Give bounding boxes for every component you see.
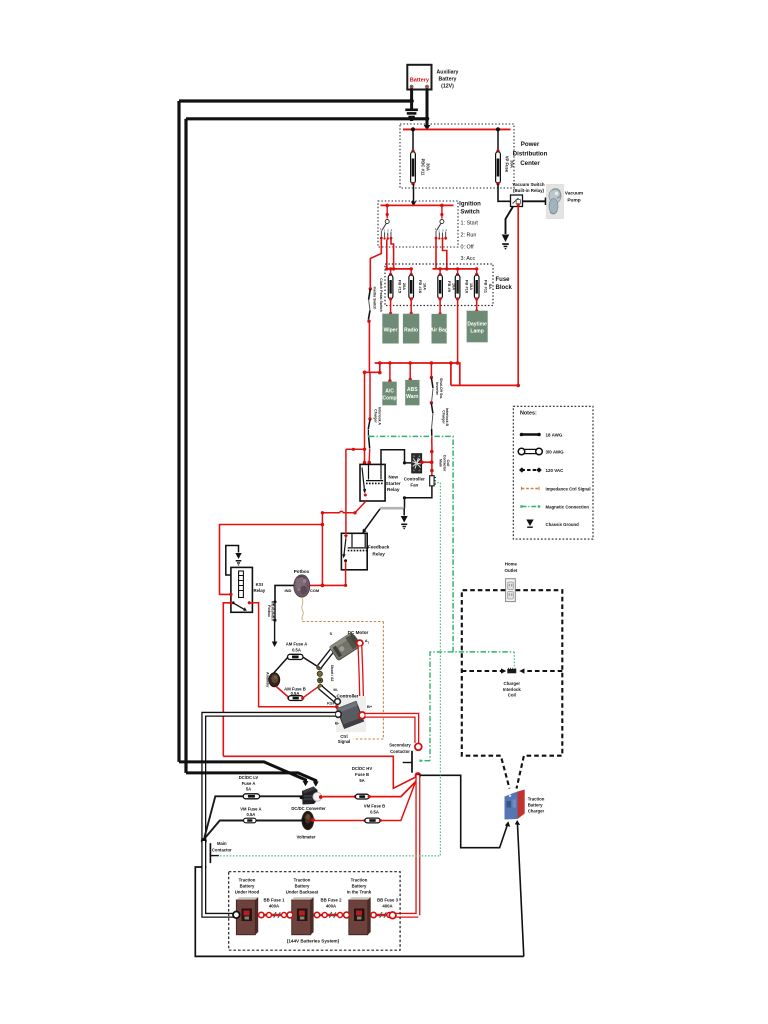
wire ABS drop <box>409 363 412 381</box>
wire KSI net vertical <box>321 513 323 586</box>
svg-text:15A: 15A <box>469 283 474 290</box>
svg-text:30A: 30A <box>426 163 431 171</box>
svg-text:DC/DC HV: DC/DC HV <box>352 766 372 771</box>
label ctrl signal <box>338 734 351 744</box>
fuse VM B <box>363 818 382 823</box>
svg-text:400A: 400A <box>326 903 336 908</box>
wire battery positive down to PDC and left run <box>186 88 430 130</box>
label inverter shutoff switch <box>435 378 443 399</box>
svg-text:Traction: Traction <box>294 878 311 883</box>
wire ignition start to fuse bus1 <box>391 239 394 269</box>
fuse PDC #11 30A <box>411 129 431 185</box>
arrow charger wire right <box>515 820 520 825</box>
svg-text:Controller: Controller <box>337 694 359 699</box>
cable junction to battery string (3/0 red) <box>396 775 419 915</box>
terminal stack <box>317 665 323 690</box>
home outlet image <box>506 579 516 602</box>
svg-text:DC/DC Converter: DC/DC Converter <box>291 806 326 811</box>
svg-text:2: Run: 2: Run <box>461 233 477 239</box>
secondary contactor ring <box>415 743 422 750</box>
svg-text:Under Hood: Under Hood <box>235 890 260 895</box>
fuse HV B <box>354 794 371 799</box>
controller B+ ring <box>359 712 366 719</box>
wire PDC fuse1 to ignition switch <box>411 184 416 207</box>
wire KSI relay to controller KSI <box>249 603 336 707</box>
svg-text:DC Motor: DC Motor <box>348 630 369 635</box>
svg-text:Starter: Starter <box>386 481 401 486</box>
svg-text:Charger: Charger <box>528 809 545 814</box>
feedback relay coil <box>348 534 367 551</box>
legend 3/0 AWG <box>518 448 564 455</box>
ignition rotary switch right <box>435 205 448 239</box>
svg-text:(Built-in Relay): (Built-in Relay) <box>513 188 545 193</box>
svg-text:B+: B+ <box>367 704 373 709</box>
legend 18 AWG <box>520 433 563 438</box>
fuse AM B <box>287 696 304 701</box>
svg-text:ABS: ABS <box>407 387 418 393</box>
svg-text:Interlock: Interlock <box>503 687 522 692</box>
wire VP fuse to vacuum switch <box>498 184 511 202</box>
load box Daytime Lamp <box>467 311 488 343</box>
vacuum pump image <box>547 185 564 219</box>
wire voltmeter line black <box>205 821 302 838</box>
svg-text:DC/DC LV: DC/DC LV <box>239 775 259 780</box>
load box Air Bag <box>430 314 448 344</box>
legend magnetic connection <box>520 505 589 510</box>
svg-text:M-: M- <box>333 687 338 692</box>
wire microswitch arrow down <box>272 621 278 648</box>
wire fan to main contactor coil chain <box>420 460 433 464</box>
label KSI relay <box>253 582 265 593</box>
chassis ground (vacuum switch) <box>502 235 510 250</box>
traction battery 1 image <box>236 897 258 935</box>
cable stack to controller M- (3/0 tube) <box>320 688 337 702</box>
wire potbox COM to KSI net <box>310 584 347 588</box>
svg-text:Battery: Battery <box>295 884 310 889</box>
svg-text:A/C: A/C <box>385 388 394 394</box>
svg-text:Coil: Coil <box>446 460 450 467</box>
ignition switch box <box>378 201 458 247</box>
wire battery negative to ground and left run <box>179 88 414 108</box>
svg-text:KSI: KSI <box>256 582 263 587</box>
svg-text:Pump: Pump <box>567 198 580 204</box>
new starter relay box <box>360 464 385 501</box>
label new starter relay <box>386 475 401 493</box>
fuse FB10 <box>455 267 474 300</box>
svg-text:Battery: Battery <box>352 884 367 889</box>
starter relay switch <box>362 468 367 497</box>
switch charger interlock A <box>367 372 371 464</box>
svg-text:BB Fuse 1: BB Fuse 1 <box>263 897 285 902</box>
svg-text:Signal: Signal <box>338 739 351 744</box>
wire AC red bus <box>375 363 519 385</box>
label main contactor coil <box>439 455 451 472</box>
interconnect battery1-2 with BB fuse 1 <box>258 912 293 918</box>
label BB fuse 3 <box>377 897 399 908</box>
svg-text:Chassis Ground: Chassis Ground <box>546 522 580 527</box>
svg-text:COM: COM <box>310 588 320 593</box>
svg-text:IND: IND <box>285 588 292 593</box>
svg-text:Clutch Pedal Switch: Clutch Pedal Switch <box>379 278 383 311</box>
wire magnetic branch to secondary contactor (green) <box>420 652 453 761</box>
svg-text:Charger: Charger <box>504 681 521 686</box>
svg-text:Auxiliary: Auxiliary <box>437 70 459 76</box>
wire positive feed to DCDC converter <box>186 773 319 787</box>
svg-text:Charger: Charger <box>441 410 445 424</box>
svg-text:120 VAC: 120 VAC <box>546 468 565 473</box>
svg-text:Vacuum Switch: Vacuum Switch <box>512 182 545 187</box>
legend chassis ground <box>526 520 579 528</box>
fuse FB15 <box>388 267 407 300</box>
svg-text:30A: 30A <box>510 160 515 168</box>
wire fuse B to terminal stack red <box>303 687 318 698</box>
svg-text:5A: 5A <box>488 284 493 289</box>
label Auxiliary Battery (12V) <box>437 70 459 90</box>
svg-text:VP Fuse: VP Fuse <box>505 156 510 173</box>
label charger interlock A <box>374 407 382 425</box>
svg-text:PDC #11: PDC #11 <box>421 159 426 176</box>
main contactor coil element <box>430 476 436 486</box>
wire charger negative down <box>517 823 523 957</box>
motor A1 ring terminal <box>357 638 370 647</box>
svg-text:Battery: Battery <box>240 884 255 889</box>
label vacuum pump <box>565 191 583 204</box>
wire long left vertical positive <box>184 119 187 773</box>
charger interlock coil element <box>507 668 516 674</box>
svg-text:5A: 5A <box>246 787 251 792</box>
cable stack to motor (3/0 tube) <box>320 646 337 667</box>
svg-text:Potbox: Potbox <box>267 605 271 617</box>
wire KSI relay ground loop <box>226 546 239 576</box>
svg-text:Battery: Battery <box>439 77 457 83</box>
svg-text:Main: Main <box>439 459 443 467</box>
label potbox microswitch <box>267 601 275 621</box>
wire magnetic coil drop dotted (green) <box>513 652 515 667</box>
potbox microswitch element <box>273 600 276 621</box>
wire vacuum switch to chassis ground <box>506 207 514 235</box>
svg-text:Traction: Traction <box>528 797 545 802</box>
ignition rotary switch left <box>380 205 393 239</box>
wire secondary contactor coil loop <box>223 756 416 788</box>
wire VM fuse B line red <box>315 779 417 821</box>
wire fuse A to terminal stack <box>303 657 318 667</box>
svg-text:Coil: Coil <box>508 693 516 698</box>
svg-text:Contactor: Contactor <box>390 749 410 754</box>
svg-text:Center: Center <box>520 160 540 167</box>
svg-text:(144V Batteries System): (144V Batteries System) <box>287 939 340 944</box>
node AC bus dots <box>388 361 520 387</box>
wire fuse bus1 <box>385 267 413 270</box>
svg-text:Vacuum: Vacuum <box>565 191 583 197</box>
wire potbox IND to microswitch <box>275 585 294 601</box>
interconnect battery2-3 with BB fuse 2 <box>314 912 350 918</box>
svg-text:Inverter: Inverter <box>435 382 439 395</box>
svg-text:Feedback: Feedback <box>368 545 390 550</box>
load box Radio <box>403 314 419 344</box>
svg-text:Daytime: Daytime <box>467 322 487 328</box>
label home outlet <box>505 562 518 573</box>
node jog dots2 <box>352 448 367 465</box>
chassis ground (fan circuit) <box>401 508 408 529</box>
svg-text:Distribution: Distribution <box>513 151 548 158</box>
fuse VM A <box>243 794 259 799</box>
svg-text:Interlock B: Interlock B <box>445 408 449 427</box>
wire coil bottom to ground run <box>403 486 432 508</box>
wire clutch chain to bus jog <box>365 322 380 372</box>
svg-text:Home: Home <box>505 562 518 567</box>
svg-text:0.5A: 0.5A <box>292 647 301 652</box>
wire ammeter to fuse A <box>273 657 288 673</box>
label AM fuse B <box>284 686 306 696</box>
wire bottom negative run <box>195 867 524 956</box>
label BB fuse 1 <box>263 897 285 908</box>
svg-text:FB #16: FB #16 <box>418 280 423 294</box>
feedback relay switch <box>342 539 347 563</box>
svg-text:Relay: Relay <box>387 487 400 492</box>
controller M- ring <box>335 699 341 705</box>
svg-text:0.5A: 0.5A <box>370 809 379 814</box>
wire impedance ctrl signal (potbox wiper) <box>302 597 384 739</box>
svg-text:18 AWG: 18 AWG <box>546 433 563 438</box>
node main negative junction <box>201 838 207 844</box>
svg-text:Notes:: Notes: <box>520 411 537 417</box>
wire vacuum switch to pump <box>523 198 546 206</box>
cable controller B+ to secondary contactor (3/0 red) <box>365 715 416 743</box>
label traction battery 3 <box>347 878 372 895</box>
interconnect battery3 to main cable with BB fuse 3 <box>371 912 396 919</box>
wire AC comp drop <box>388 363 391 383</box>
wire feedback switch lower red <box>345 562 347 586</box>
label charger interlock B <box>441 408 449 427</box>
svg-text:Main: Main <box>217 841 227 846</box>
label vacuum switch <box>512 182 545 193</box>
svg-text:10A: 10A <box>423 283 428 290</box>
svg-text:Comp: Comp <box>382 395 396 401</box>
svg-text:Controller: Controller <box>404 477 425 482</box>
wire red into feedback relay <box>344 532 348 539</box>
svg-text:AM Fuse A: AM Fuse A <box>286 642 307 647</box>
potbox image <box>294 575 310 597</box>
fuse FB9 <box>438 267 457 300</box>
voltmeter image <box>301 811 315 829</box>
svg-text:0.5A: 0.5A <box>246 812 255 817</box>
label secondary contactor <box>389 743 411 754</box>
svg-text:FB #9: FB #9 <box>447 281 452 293</box>
label feedback relay <box>368 545 390 557</box>
wire 120VAC dashed box <box>462 590 563 788</box>
wire starter relay KSI feed diagonal <box>321 501 366 515</box>
svg-text:Shut-Off Sw.: Shut-Off Sw. <box>439 378 443 399</box>
svg-text:3/0 AWG: 3/0 AWG <box>546 450 565 455</box>
dc motor image <box>329 632 361 661</box>
svg-text:Contactor: Contactor <box>442 455 446 472</box>
svg-text:Fuse A: Fuse A <box>242 781 256 786</box>
wire fuse bus2 <box>433 267 478 270</box>
starter relay coil <box>366 465 383 483</box>
svg-text:0: Off: 0: Off <box>461 245 475 251</box>
svg-text:VM Fuse B: VM Fuse B <box>364 803 385 808</box>
load box AC Comp <box>382 382 396 406</box>
wire VM fuse A line <box>204 796 301 838</box>
svg-text:1: Start: 1: Start <box>461 221 479 227</box>
wire vacuum switch red down to AC rail <box>517 203 520 385</box>
wire relay to feedback relay diagonal <box>362 509 380 533</box>
svg-text:In the Trunk: In the Trunk <box>347 890 372 895</box>
fuse AM A <box>288 654 304 659</box>
node main positive junction <box>415 772 421 778</box>
wire 120VAC interlock row <box>462 668 563 673</box>
svg-text:VM Fuse A: VM Fuse A <box>240 806 261 811</box>
svg-text:Voltmeter: Voltmeter <box>296 834 315 839</box>
node bus jog dots <box>363 361 382 374</box>
svg-text:Relay: Relay <box>372 551 385 556</box>
node green squares <box>368 435 422 762</box>
wire ignition acc to clutch chain <box>370 239 381 288</box>
svg-text:B-: B- <box>335 721 340 726</box>
wire junction to charger positive <box>418 775 508 847</box>
arrow charger wire left <box>505 821 510 827</box>
KSI relay box <box>231 567 253 612</box>
wire clutch chain upper <box>367 287 372 323</box>
svg-text:Relay: Relay <box>253 588 265 593</box>
label main contactor <box>212 841 232 852</box>
svg-text:Traction: Traction <box>351 878 368 883</box>
wire red jog to feedback relay feed <box>346 372 365 532</box>
label fuse block <box>496 277 513 291</box>
wire PDC red rail <box>403 127 511 131</box>
svg-text:Secondary: Secondary <box>389 743 411 748</box>
wire ignition to fuse bus2 b <box>443 240 447 269</box>
wire fuse1 to wiper <box>389 299 392 315</box>
svg-text:FB #15: FB #15 <box>397 280 402 294</box>
chassis ground (KSI relay) <box>235 553 241 566</box>
chassis ground (aux battery) <box>405 109 418 122</box>
svg-text:Contactor: Contactor <box>212 847 232 852</box>
cable controller B- to main junction (3/0 black) <box>204 714 335 841</box>
fuse FB11 <box>474 267 493 300</box>
wire ignition run to fuse bus1 <box>386 240 388 269</box>
KSI relay coil <box>239 571 244 598</box>
load box Wiper <box>382 314 398 344</box>
wire magnetic connection interlocks to coil (green) <box>369 436 514 652</box>
svg-text:Impedance Ctrl Signal: Impedance Ctrl Signal <box>546 487 591 492</box>
svg-text:(12V): (12V) <box>441 84 454 90</box>
svg-text:Warn: Warn <box>406 394 418 400</box>
wire starter relay to controller fan <box>381 450 411 465</box>
legend 120 VAC <box>519 467 564 473</box>
traction battery 2 image <box>292 897 314 935</box>
label traction battery 1 <box>235 878 260 895</box>
controller B- ring <box>335 711 341 717</box>
fuse small on voltmeter line <box>244 818 257 823</box>
controller KSI node <box>335 705 339 709</box>
svg-text:Charger: Charger <box>374 409 378 423</box>
svg-text:Inertia Switch: Inertia Switch <box>373 287 377 310</box>
label DCDC HV fuse B <box>352 766 372 783</box>
svg-text:Microswitch: Microswitch <box>271 601 275 621</box>
svg-text:400A: 400A <box>269 903 279 908</box>
svg-text:BB Fuse 2: BB Fuse 2 <box>320 897 342 902</box>
main contactor symbol <box>210 843 219 863</box>
svg-text:Shunt / A2: Shunt / A2 <box>330 665 334 682</box>
vacuum switch box <box>511 195 523 207</box>
svg-text:Potbox: Potbox <box>294 569 310 574</box>
secondary contactor symbol <box>403 751 412 773</box>
wire KSI relay coil feed <box>220 523 325 595</box>
label Power Distribution Center <box>513 141 548 167</box>
svg-text:Block: Block <box>496 285 513 291</box>
svg-text:Fan: Fan <box>410 483 418 488</box>
legend notes box <box>513 406 593 539</box>
cable A1 to controller B+ (3/0 red) <box>360 646 362 712</box>
svg-text:Traction: Traction <box>239 878 256 883</box>
wire HV fuse B line red <box>323 781 417 797</box>
label VM fuse B <box>364 803 385 814</box>
svg-text:New: New <box>388 475 398 480</box>
svg-text:Radio: Radio <box>404 328 418 334</box>
legend impedance ctrl signal <box>522 487 591 492</box>
label VM fuse A <box>240 806 261 817</box>
label AM fuse A <box>286 642 307 653</box>
KSI relay switch <box>229 593 251 611</box>
controller image <box>336 696 366 732</box>
svg-text:Ignition: Ignition <box>459 202 481 208</box>
label ignition switch <box>459 202 481 263</box>
svg-text:Magnetic Connection: Magnetic Connection <box>546 505 590 510</box>
label controller fan <box>404 477 425 488</box>
svg-text:Battery: Battery <box>528 803 543 808</box>
label DCDC LV fuse A <box>239 775 259 792</box>
svg-text:Lamp: Lamp <box>470 329 483 335</box>
fuse VP Fuse 30A <box>496 129 515 185</box>
power distribution center box <box>400 124 514 188</box>
svg-text:Battery: Battery <box>410 77 430 83</box>
wire KSI relay left elbow down <box>223 603 231 757</box>
svg-text:BB Fuse 3: BB Fuse 3 <box>377 897 399 902</box>
wire fuse5 to daytime lamp <box>475 299 478 313</box>
controller fan image <box>412 454 422 473</box>
svg-text:Air Bag: Air Bag <box>430 328 448 334</box>
battery1 negative ring <box>233 912 240 919</box>
label traction battery charger <box>528 797 545 814</box>
cable junction to battery string (3/0 black) <box>204 841 234 915</box>
svg-text:FB #11: FB #11 <box>484 280 489 294</box>
wire main contactor coil chain <box>430 436 434 475</box>
wire ignition internal red bus <box>381 204 454 208</box>
load box ABS Warn <box>405 380 419 405</box>
battery string box <box>229 872 400 951</box>
wire negative feed to DCDC converter <box>179 762 308 786</box>
svg-text:FB #10: FB #10 <box>464 280 469 294</box>
svg-text:Fuse B: Fuse B <box>355 772 369 777</box>
auxiliary battery 12V <box>407 65 431 90</box>
svg-text:400A: 400A <box>382 903 392 908</box>
svg-text:Interlock A: Interlock A <box>377 407 381 425</box>
wire long left vertical negative <box>177 101 180 762</box>
svg-text:Under Backseat: Under Backseat <box>286 890 319 895</box>
fuse FB16 <box>409 267 428 300</box>
label charger interlock coil <box>503 681 522 698</box>
svg-text:Outlet: Outlet <box>505 568 518 573</box>
wire ammeter to fuse B red <box>276 687 289 698</box>
fuse block box <box>385 264 493 306</box>
wire fuse3 to air bag <box>439 299 442 315</box>
switch inverter shutoff / charger interlock B <box>430 363 433 436</box>
label traction battery 2 <box>286 878 319 895</box>
wire gray link <box>380 507 404 510</box>
svg-text:Ammeter: Ammeter <box>266 672 270 688</box>
wire magnetic MC coil to main contactor (green dotted) <box>219 483 441 856</box>
